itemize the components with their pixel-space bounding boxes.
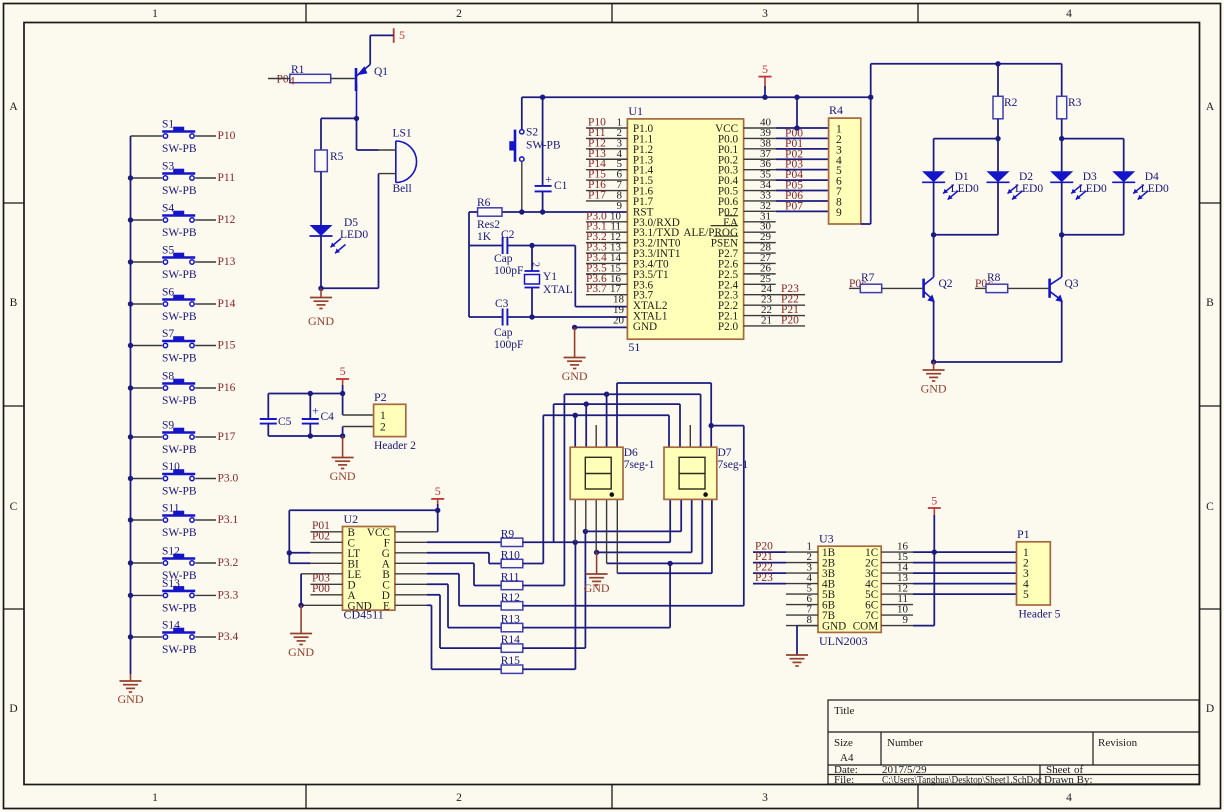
switch S3 (P11) (131, 177, 163, 179)
switch S7 (P15) (131, 345, 163, 347)
svg-text:E: E (383, 600, 390, 612)
wire R3 bottom to D3/D4 rail (1061, 119, 1063, 139)
svg-text:4: 4 (1066, 792, 1072, 804)
svg-text:20: 20 (613, 314, 625, 326)
wire D3 bottom (1061, 182, 1063, 235)
svg-text:S8: S8 (162, 371, 174, 383)
wire R12 long rail to D7 riser (523, 605, 744, 607)
svg-text:R1: R1 (291, 64, 305, 76)
wire U2 pin LE to GND (301, 573, 342, 575)
resistor R6 (478, 208, 502, 216)
wire U1 pin 37 to R4 pin 4 (744, 158, 776, 160)
junction on +5 rail at power symbol (762, 95, 767, 100)
wire R7 to Q2 base (882, 287, 923, 289)
svg-text:100pF: 100pF (494, 339, 523, 351)
svg-text:1K: 1K (477, 231, 492, 243)
svg-text:SW-PB: SW-PB (162, 227, 197, 239)
svg-text:C4: C4 (321, 411, 335, 423)
svg-text:1: 1 (152, 792, 158, 804)
stub U1 pin 28 (744, 252, 776, 254)
svg-text:S14: S14 (162, 620, 180, 632)
wire D2 bottom (997, 182, 999, 235)
wire P2 pin1 to +5 (342, 394, 344, 416)
power +5 symbol above U3 COM (928, 507, 941, 509)
svg-text:GND: GND (330, 469, 356, 483)
wire R13 to H9 leg (523, 627, 670, 629)
U3 output stubs 6C 7C (881, 604, 913, 606)
wire U1 pin 33 to R4 pin 8 (744, 200, 776, 202)
svg-text:P00: P00 (312, 583, 330, 595)
svg-text:P3.4: P3.4 (218, 631, 239, 643)
svg-text:5: 5 (762, 62, 768, 76)
svg-text:Header 2: Header 2 (374, 440, 416, 452)
junction Q1 collector node (354, 116, 359, 121)
switch S12 (P3.2) (131, 562, 163, 564)
title block row line under Date (828, 774, 1199, 776)
switch S14 (P3.4) (131, 636, 163, 638)
wire U2 pin D with net label P03 (310, 583, 342, 585)
wire U3 1C to P1 pin1 (881, 551, 913, 553)
wire R14 to H6 leg (523, 647, 586, 649)
svg-text:SW-PB: SW-PB (162, 311, 197, 323)
wire crystal bottom to XTAL1 rail (531, 288, 533, 318)
wire U2 D(out) to R14 (395, 594, 427, 596)
wire D4 bottom (1123, 182, 1125, 235)
title block column line Size|Number (880, 732, 882, 765)
svg-text:P12: P12 (218, 214, 236, 226)
junction crystal top node (529, 243, 534, 248)
svg-text:5: 5 (340, 364, 346, 378)
svg-text:R4: R4 (829, 103, 843, 117)
wire U2 C(out) to R13 (395, 583, 427, 585)
wire U1 pin 32 to R4 pin 9 (744, 210, 776, 212)
svg-text:R12: R12 (501, 592, 520, 604)
wire H6 rail below displays (585, 530, 681, 532)
stub U1 pin 30 (744, 231, 776, 233)
svg-text:7seg-1: 7seg-1 (624, 459, 655, 471)
wire riser to upper rail (870, 64, 872, 97)
svg-text:P3.0: P3.0 (218, 473, 239, 485)
svg-text:Cap: Cap (494, 327, 513, 339)
svg-text:3: 3 (762, 8, 768, 20)
svg-text:B: B (1206, 297, 1214, 309)
svg-text:U3: U3 (819, 532, 834, 546)
svg-text:GND: GND (562, 369, 588, 383)
wire stub left of R8 (975, 287, 986, 289)
svg-text:Title: Title (834, 705, 855, 717)
junction on bus at S9 (128, 434, 133, 439)
svg-text:R6: R6 (477, 197, 491, 209)
junction on bus at S8 (128, 385, 133, 390)
svg-text:Drawn By:: Drawn By: (1044, 774, 1093, 786)
wire U1 pin 16 with net label P3.6 (586, 283, 627, 285)
wire U1 pin 34 to R4 pin 7 (744, 190, 776, 192)
svg-text:S1: S1 (162, 119, 174, 131)
power +5 symbol on top rail (759, 76, 772, 78)
svg-text:1: 1 (152, 8, 158, 20)
wire U1 pin 11 with net label P3.1 (586, 231, 627, 233)
junction U2 ground node (298, 603, 303, 608)
wire H2 rail above displays (564, 393, 700, 395)
switch S11 (P3.1) (131, 519, 163, 521)
wire R1 to Q1 base (331, 78, 355, 80)
wire U3 pin 14 to P1 pin 3 (881, 572, 913, 574)
svg-text:51: 51 (628, 340, 640, 354)
crystal Y1 XTAL (525, 270, 540, 272)
svg-text:A: A (9, 101, 18, 113)
svg-text:7seg-1: 7seg-1 (718, 459, 749, 471)
wire U1 pin 35 to R4 pin 6 (744, 179, 776, 181)
wire R9 row to D7 (segment rail) (523, 541, 670, 543)
wire H10 rail below displays (617, 572, 712, 574)
svg-text:D5: D5 (344, 217, 358, 229)
svg-text:GND: GND (288, 645, 314, 659)
junction on bus at S7 (128, 343, 133, 348)
svg-text:Size: Size (834, 737, 853, 749)
svg-text:P3.1: P3.1 (218, 514, 239, 526)
wire U2 E(out) to R15 (395, 604, 427, 606)
stub U1 pin 25 (744, 283, 776, 285)
resistor R10 (501, 559, 523, 567)
svg-text:S13: S13 (162, 578, 180, 590)
wire H3 rail above displays (554, 403, 680, 405)
chip U2 CD4511 body (343, 527, 395, 611)
stub U3 pin 8 (786, 625, 818, 627)
wire COM riser down (933, 552, 935, 626)
resistor R2 (997, 64, 999, 97)
wire U3 pin 12 to P1 pin 5 (881, 593, 913, 595)
junction H5 at D7 pin riser (709, 423, 714, 428)
title block outline (828, 700, 1199, 784)
junction RST rail at C1 (540, 209, 545, 214)
display D6 7seg-1 (570, 447, 623, 499)
junction at D5 ground node (318, 286, 323, 291)
wire D1 top (933, 139, 935, 172)
svg-text:R14: R14 (501, 634, 520, 646)
junction on bus at S12 (128, 560, 133, 565)
wire U1 pin 40 to R4 pin 1 (744, 127, 776, 129)
svg-text:R8: R8 (987, 272, 1001, 284)
svg-text:100pF: 100pF (494, 265, 523, 277)
wire U1 GND pin 20 (575, 326, 628, 328)
svg-text:P2.0: P2.0 (718, 321, 739, 333)
junction on bus at S10 (128, 476, 133, 481)
wire emitter ground rail (934, 361, 1062, 363)
svg-text:COM: COM (853, 621, 879, 633)
wire C1 bottom to RST rail (542, 191, 544, 212)
svg-text:R3: R3 (1068, 97, 1082, 109)
wire H9 rail below displays (607, 562, 703, 564)
diode D2 LED0 (987, 171, 1010, 182)
svg-text:Q1: Q1 (374, 66, 388, 78)
junction bottom rail at C4 (308, 433, 313, 438)
svg-text:U1: U1 (628, 104, 643, 118)
wire U2 F to R9 (395, 541, 427, 543)
wire U3 pin 3 with net label P22 (753, 572, 786, 574)
junction bottom rail at GND stem (340, 433, 345, 438)
wire R10 to H4 leg (523, 563, 544, 565)
svg-text:P07: P07 (785, 200, 803, 212)
svg-text:4: 4 (289, 76, 295, 88)
wire H4 rail above displays (543, 414, 669, 416)
svg-text:P17: P17 (588, 189, 606, 201)
wire net stub left of R1 (268, 78, 290, 80)
svg-text:2: 2 (380, 422, 386, 434)
svg-text:Y1: Y1 (543, 271, 557, 283)
svg-text:9: 9 (836, 207, 842, 219)
junction on bus at S5 (128, 259, 133, 264)
junction D3 D4 bottom rail (1059, 232, 1064, 237)
wire D3 D4 top rail (1062, 138, 1124, 140)
wire R8 to Q3 base (1008, 287, 1049, 289)
svg-text:SW-PB: SW-PB (162, 395, 197, 407)
wire Q2 emitter down to ground rail (933, 301, 935, 363)
svg-text:R15: R15 (501, 655, 520, 667)
junction +5 at COM riser (932, 549, 937, 554)
wire R2 bottom to D1/D2 rail (997, 119, 999, 139)
svg-text:S10: S10 (162, 461, 180, 473)
title block column line Number|Revision (1092, 732, 1094, 765)
wire crystal top (531, 246, 533, 272)
wire H5 rail (711, 425, 744, 427)
switch S6 (P14) (131, 303, 163, 305)
svg-text:GND: GND (118, 692, 144, 706)
switch S13 (P3.3) (131, 594, 163, 596)
svg-text:P11: P11 (218, 172, 236, 184)
svg-text:C1: C1 (554, 180, 568, 192)
ground symbol below U3 (786, 654, 808, 656)
connector P1 Header 5 (1017, 542, 1051, 605)
wire Q1 emitter to power (370, 34, 394, 36)
capacitor C4 (polarized) (309, 394, 311, 420)
svg-text:D6: D6 (624, 447, 638, 459)
svg-text:R9: R9 (501, 528, 515, 540)
wire H1 rail above displays (617, 382, 711, 384)
stub U3 pin 6 (786, 604, 818, 606)
svg-text:P2: P2 (374, 390, 387, 404)
svg-text:ULN2003: ULN2003 (819, 634, 868, 648)
wire to Q3 collector (1061, 235, 1063, 277)
svg-text:D7: D7 (718, 447, 732, 459)
ground symbol under U1 (574, 327, 576, 357)
wire U1 pin 38 to R4 pin 3 (744, 148, 776, 150)
wire U2 pin B with net label P01 (310, 531, 342, 533)
resistor R14 (501, 644, 523, 652)
resistor R13 (501, 623, 523, 631)
zone row ticks (4, 202, 25, 204)
junction ground rail at Q2 (931, 359, 936, 364)
junction on bus at S4 (128, 217, 133, 222)
switch S5 (P13) (131, 261, 163, 263)
wire U1 pin 5 with net label P14 (586, 169, 627, 171)
svg-text:1: 1 (380, 410, 386, 422)
svg-text:LED0: LED0 (1141, 183, 1169, 195)
wire U2 pin C with net label P02 (310, 541, 342, 543)
transistor Q1 (PNP) (355, 68, 358, 91)
wire U1 pin 10 with net label P3.0 (586, 221, 627, 223)
svg-text:R11: R11 (501, 572, 520, 584)
wire R15 to D6 pin leg (523, 668, 576, 670)
svg-text:SW-PB: SW-PB (162, 602, 197, 614)
wire D6 pin down to R9 rail (574, 499, 576, 542)
ground symbol below switch bus (130, 674, 132, 681)
zone column ticks (305, 4, 307, 23)
wire U1 pin 3 with net label P12 (586, 148, 627, 150)
svg-text:P3.3: P3.3 (218, 589, 239, 601)
svg-text:D4: D4 (1145, 171, 1159, 183)
wire LT pin (289, 552, 310, 554)
junction on bus at S11 (128, 517, 133, 522)
svg-text:S7: S7 (162, 328, 174, 340)
svg-text:R7: R7 (861, 272, 875, 284)
title block row line under Title (828, 731, 1199, 733)
svg-text:5: 5 (399, 28, 405, 42)
stub U1 pin 27 (744, 262, 776, 264)
wire D3 D4 bottom rail (1062, 234, 1124, 236)
svg-text:3: 3 (762, 792, 768, 804)
wire U2 pin A with net label P00 (310, 594, 342, 596)
junction LT wire (287, 550, 292, 555)
switch S8 (P16) (131, 387, 163, 389)
svg-text:+: + (312, 404, 319, 418)
wire U1 pin 17 with net label P3.7 (586, 294, 627, 296)
resistor R12 (501, 602, 523, 610)
wire U3 pin 15 to P1 pin 2 (881, 562, 913, 564)
svg-text:2: 2 (456, 8, 462, 20)
svg-text:R2: R2 (1004, 97, 1018, 109)
svg-text:SW-PB: SW-PB (162, 353, 197, 365)
switch S9 (P17) (131, 436, 163, 438)
svg-text:SW-PB: SW-PB (162, 269, 197, 281)
wire U1 pin 6 with net label P15 (586, 179, 627, 181)
stub D6 top pin 3 (595, 425, 597, 447)
wire H8 rail below displays (common gnd) (596, 551, 692, 553)
wire U1 pin 22 with net label P21 (744, 315, 805, 317)
wire U2 GND pin (301, 604, 342, 606)
svg-text:GND: GND (822, 621, 846, 633)
junction crystal bottom node (529, 314, 534, 319)
svg-text:8: 8 (807, 614, 813, 626)
wire BI pin (289, 562, 310, 564)
wire +5 to LT/BI (289, 509, 437, 511)
junction on bus at S3 (128, 175, 133, 180)
wire D5 to ground junction (320, 236, 322, 288)
wire U1 pin 21 with net label P20 (744, 325, 805, 327)
power +5 symbol above U2 (431, 498, 444, 500)
svg-text:C: C (1206, 501, 1214, 513)
svg-text:GND: GND (921, 382, 947, 396)
svg-text:Q2: Q2 (939, 278, 953, 290)
title block column line Sheet/DrawnBy (1039, 765, 1041, 784)
wire C5 C4 bottom rail (268, 435, 342, 437)
svg-text:SW-PB: SW-PB (162, 444, 197, 456)
wire U1 pin 8 with net label P17 (586, 200, 627, 202)
wire collector node to R5 branch (321, 117, 357, 119)
svg-text:Q3: Q3 (1065, 278, 1079, 290)
stub U1 pin 29 (744, 242, 776, 244)
resistor R11 (501, 581, 523, 589)
svg-text:D1: D1 (955, 171, 969, 183)
junction on bus at S14 (128, 634, 133, 639)
wire U1 pin 1 with net label P10 (586, 127, 627, 129)
junction on bus at S6 (128, 301, 133, 306)
ground symbol below U2 (300, 605, 302, 633)
wire C3 rail to U1 pin 19 (469, 316, 503, 318)
svg-text:D: D (9, 703, 17, 715)
junction D3 D4 top rail (1059, 136, 1064, 141)
svg-text:Revision: Revision (1098, 737, 1138, 749)
svg-text:GND: GND (584, 581, 610, 595)
svg-text:SW-PB: SW-PB (162, 486, 197, 498)
wire U1 pin 15 with net label P3.5 (586, 273, 627, 275)
op-amp U1 body (8051 MCU) (627, 119, 743, 339)
svg-text:LS1: LS1 (393, 128, 412, 140)
wire P2 pin2 to gnd rail (342, 427, 344, 437)
junction R9 rail at D6 pin (573, 540, 578, 545)
svg-text:P1: P1 (1017, 527, 1030, 541)
wire R4 common right side (870, 97, 872, 224)
wire RST rail to U1 pin 9 (502, 211, 627, 213)
switch S10 (P3.0) (131, 478, 163, 480)
stub U3 pin 7 (786, 614, 818, 616)
wire S2 bottom to RST rail (521, 161, 523, 212)
wire C1 branch (542, 97, 544, 186)
svg-text:LED0: LED0 (340, 229, 368, 241)
wire D3 top (1061, 139, 1063, 172)
svg-text:Header 5: Header 5 (1019, 609, 1061, 621)
wire Q3 emitter down to ground rail (1061, 301, 1063, 363)
resistor R8 (986, 284, 1008, 292)
junction VCC branch at pin 40 wire (794, 125, 799, 130)
capacitor C1 (polarized) (535, 185, 552, 187)
svg-text:C3: C3 (495, 298, 509, 310)
resistor R5 (315, 150, 328, 172)
diode D5 LED0 (310, 225, 333, 236)
capacitor C5 (267, 394, 269, 420)
junction +5 rail at U2 VCC riser (435, 508, 440, 513)
svg-text:SW-PB: SW-PB (162, 185, 197, 197)
wire U3 pin 2 with net label P21 (753, 562, 786, 564)
wire bell bottom down to ground rail (378, 174, 380, 289)
svg-text:P14: P14 (218, 298, 236, 310)
svg-text:P15: P15 (218, 340, 236, 352)
svg-text:4: 4 (1066, 8, 1072, 20)
wire U3 COM stub (881, 625, 913, 627)
capacitor C2 (502, 237, 504, 254)
ground symbol below Q2 (933, 362, 935, 370)
svg-text:SW-PB: SW-PB (162, 143, 197, 155)
wire U1 pin 7 with net label P16 (586, 190, 627, 192)
ground symbol below D5 (320, 288, 322, 297)
resistor R15 (501, 665, 523, 673)
wire D1 bottom (933, 182, 935, 235)
chip U3 ULN2003 body (818, 546, 881, 632)
svg-text:D: D (1206, 703, 1214, 715)
resistor network R4 (829, 118, 861, 224)
stub U1 pin 31 (744, 221, 776, 223)
wire leg H3 to R9 row (553, 404, 555, 542)
svg-text:S3: S3 (162, 161, 174, 173)
power +5 symbol above Q1 (393, 28, 395, 43)
svg-text:D2: D2 (1019, 171, 1033, 183)
svg-text:SW-PB: SW-PB (162, 527, 197, 539)
wire D1 D2 bottom rail (934, 234, 998, 236)
wire C2 to crystal node (507, 245, 575, 247)
svg-text:P16: P16 (218, 382, 236, 394)
svg-text:S4: S4 (162, 203, 174, 215)
wire stub left of R7 (849, 287, 860, 289)
connector P2 Header 2 (374, 404, 406, 436)
